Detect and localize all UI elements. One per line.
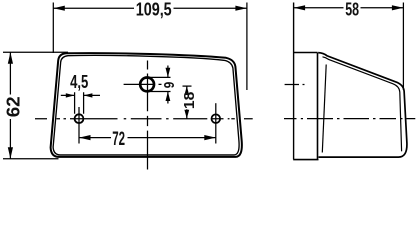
svg-text:58: 58: [345, 0, 359, 19]
svg-text:4,5: 4,5: [70, 72, 88, 92]
svg-text:72: 72: [112, 129, 125, 150]
svg-text:18: 18: [181, 92, 198, 109]
svg-text:62: 62: [3, 96, 23, 117]
svg-text:109,5: 109,5: [136, 0, 172, 19]
svg-text:9: 9: [161, 82, 178, 89]
